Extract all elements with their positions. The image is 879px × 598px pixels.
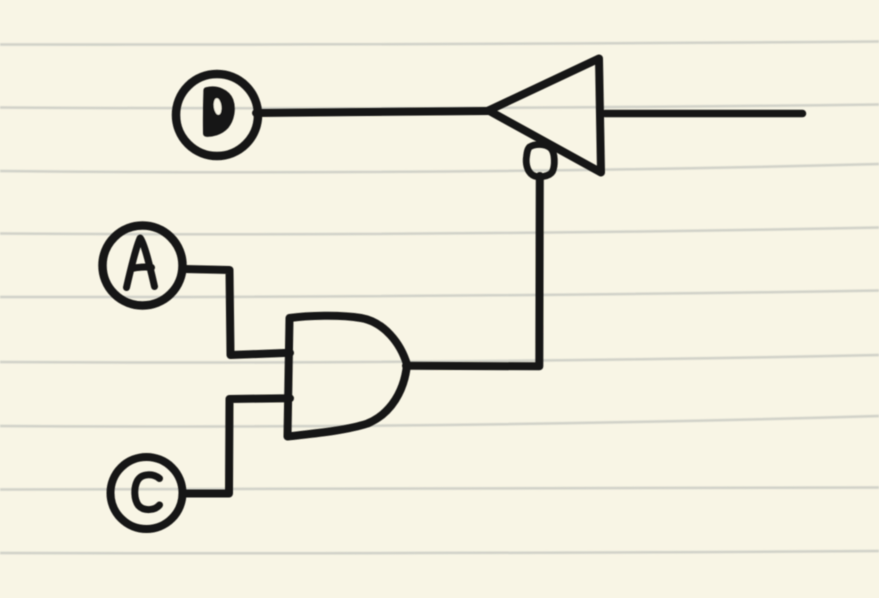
wire buffer output right	[605, 110, 803, 118]
AND gate	[288, 316, 408, 437]
node A circle	[103, 226, 183, 306]
label D	[206, 90, 231, 134]
node D circle	[176, 74, 258, 156]
label A	[127, 238, 155, 288]
label C	[135, 475, 160, 510]
wire C to AND gate	[185, 398, 290, 493]
label D counter hole	[213, 98, 223, 115]
enable bubble	[526, 144, 554, 176]
tri-state buffer U1	[489, 59, 602, 173]
wire AND output to enable bubble	[406, 176, 540, 366]
wire A to AND gate	[184, 269, 290, 355]
wire D to buffer	[256, 111, 490, 113]
node C circle	[111, 457, 183, 529]
